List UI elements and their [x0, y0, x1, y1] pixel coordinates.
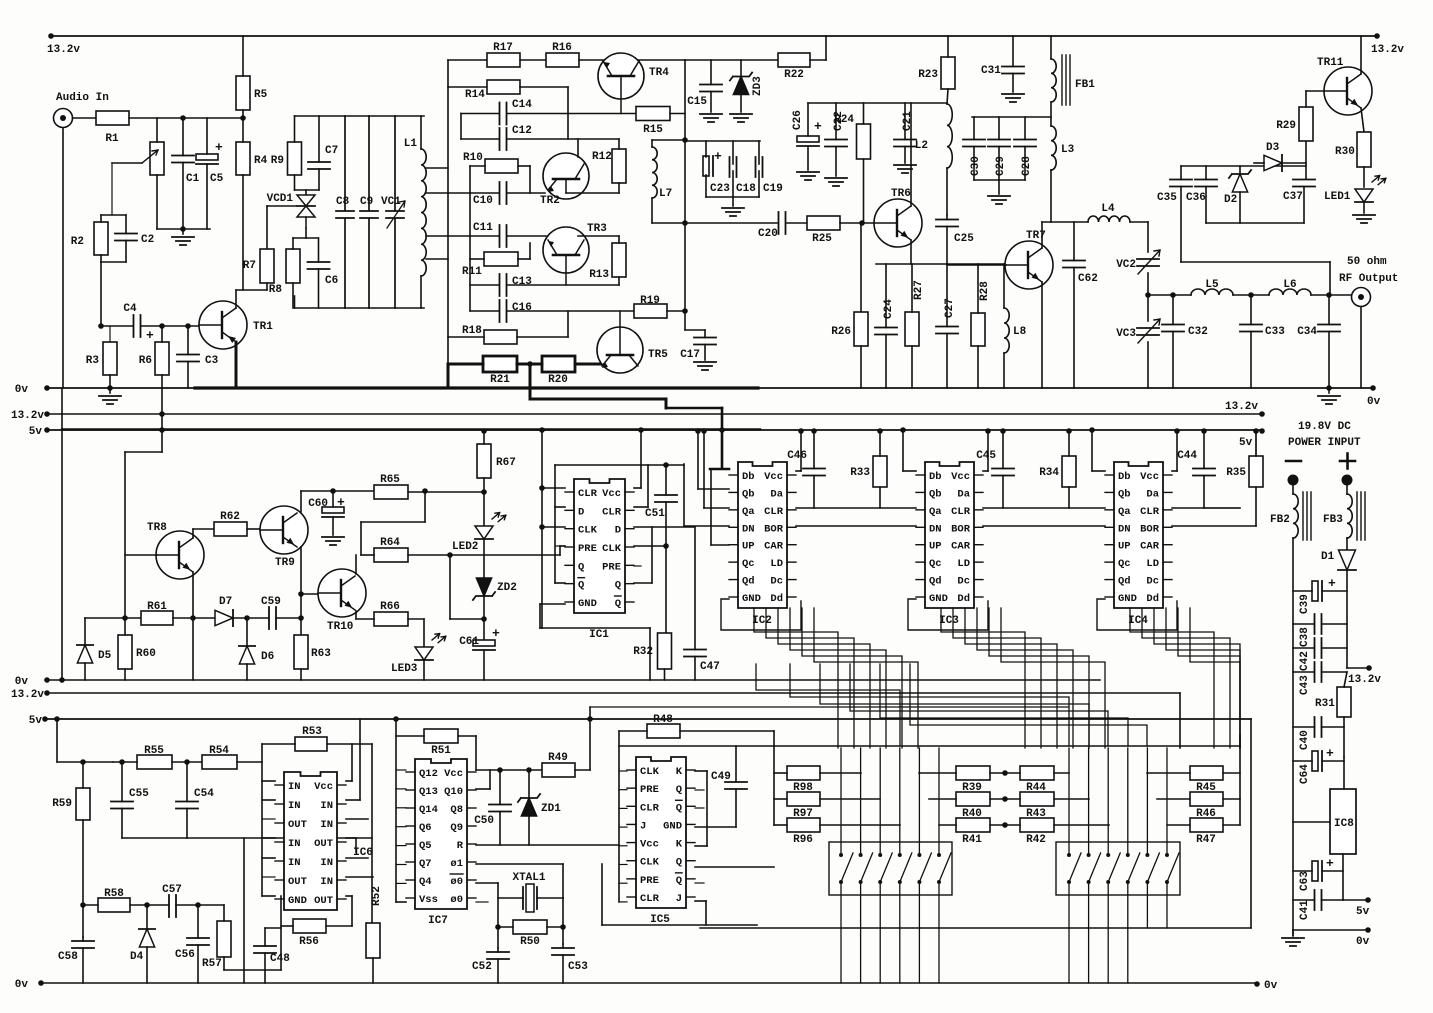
wire — [541, 429, 543, 628]
svg-text:C35: C35 — [1157, 192, 1177, 204]
wire — [547, 926, 563, 928]
svg-text:C49: C49 — [711, 771, 731, 783]
resistor R63 — [294, 635, 331, 669]
wire — [82, 762, 84, 788]
svg-text:C20: C20 — [758, 228, 778, 240]
wire — [562, 955, 564, 983]
svg-text:C50: C50 — [474, 815, 494, 827]
svg-text:Q: Q — [676, 784, 682, 796]
DIP switch SW1 — [829, 842, 952, 895]
resistor R65 — [374, 474, 408, 499]
wire — [555, 464, 684, 466]
svg-text:0v: 0v — [1367, 396, 1381, 408]
inductor L4 — [1088, 203, 1130, 222]
junction — [244, 615, 250, 621]
resistor R19 — [634, 295, 667, 318]
wire — [262, 818, 275, 820]
capacitor C30 — [963, 140, 985, 177]
wire — [124, 452, 126, 618]
wire — [983, 507, 1105, 509]
resistor R66 — [374, 601, 408, 626]
wire — [223, 905, 225, 921]
svg-text:Dd: Dd — [770, 593, 783, 605]
inductor L2 — [915, 104, 952, 168]
wire — [109, 326, 111, 342]
svg-text:R28: R28 — [979, 281, 991, 301]
wire — [1293, 671, 1315, 673]
wire — [476, 769, 542, 771]
svg-text:IC1: IC1 — [589, 629, 609, 641]
svg-text:J: J — [676, 893, 682, 905]
varactor VCD1 — [297, 195, 315, 228]
wire — [619, 789, 627, 791]
svg-text:Q: Q — [676, 875, 682, 887]
ground — [730, 114, 752, 122]
capacitor C21 — [894, 111, 916, 147]
capacitor C29 — [988, 140, 1010, 177]
diode D7 — [215, 610, 233, 626]
svg-text:C9: C9 — [360, 196, 373, 208]
svg-text:C47: C47 — [700, 661, 720, 673]
svg-text:R47: R47 — [1196, 834, 1216, 846]
inductor L8 — [1004, 308, 1027, 353]
IC IC2 — [729, 462, 796, 627]
svg-text:Q: Q — [676, 802, 682, 814]
resistor R53 — [295, 726, 327, 751]
svg-text:L1: L1 — [404, 138, 418, 150]
wire — [694, 657, 696, 681]
wire — [740, 95, 742, 112]
wire — [542, 526, 565, 528]
capacitor C50 — [474, 805, 511, 828]
wire — [355, 555, 357, 574]
svg-text:R61: R61 — [147, 601, 167, 613]
junction — [144, 902, 150, 908]
svg-text:PRE: PRE — [640, 784, 659, 796]
svg-text:Da: Da — [1146, 488, 1159, 500]
wire — [129, 117, 243, 119]
wire — [860, 346, 862, 388]
junction — [80, 759, 86, 765]
svg-text:Qd: Qd — [742, 576, 755, 588]
wire — [685, 329, 705, 331]
wire — [670, 113, 685, 115]
svg-text:L3: L3 — [1061, 144, 1075, 156]
wire — [507, 113, 568, 115]
svg-text:Q12: Q12 — [419, 768, 438, 780]
wire — [710, 60, 712, 85]
wire — [124, 669, 126, 680]
wire — [904, 147, 906, 164]
wire — [618, 731, 620, 902]
svg-text:C64: C64 — [1299, 764, 1311, 784]
svg-text:Q: Q — [578, 561, 584, 573]
wire — [1293, 760, 1312, 762]
wire — [990, 772, 1020, 774]
wire — [1205, 187, 1207, 224]
svg-text:R17: R17 — [493, 42, 513, 54]
svg-text:C12: C12 — [512, 125, 532, 137]
svg-text:CLK: CLK — [602, 543, 622, 555]
wire — [408, 554, 450, 556]
wire — [983, 470, 988, 472]
junction — [1370, 385, 1376, 391]
wire — [51, 35, 1377, 37]
wire — [122, 837, 372, 839]
wire — [879, 487, 881, 508]
svg-text:GND: GND — [578, 598, 597, 610]
svg-text:TR4: TR4 — [649, 67, 669, 79]
wire — [517, 363, 542, 366]
wire — [652, 222, 777, 224]
junction — [1002, 796, 1008, 802]
svg-text:C62: C62 — [1078, 273, 1098, 285]
wire — [1223, 798, 1240, 800]
transistor TR3 — [543, 227, 589, 285]
wire — [498, 926, 513, 928]
wire — [618, 277, 620, 285]
capacitor C4 — [123, 303, 140, 337]
svg-text:LED2: LED2 — [452, 541, 478, 553]
wire — [1282, 162, 1306, 164]
wire — [292, 238, 294, 249]
wire — [562, 898, 564, 944]
svg-text:C41: C41 — [1299, 900, 1311, 920]
wire — [461, 113, 499, 115]
junction — [663, 462, 669, 468]
wire — [346, 780, 352, 782]
variable capacitor VC2 — [1116, 250, 1160, 274]
svg-text:R67: R67 — [496, 457, 516, 469]
svg-text:L8: L8 — [1013, 326, 1027, 338]
svg-text:DN: DN — [929, 523, 942, 535]
svg-text:Db: Db — [1118, 471, 1131, 483]
wire — [1205, 166, 1207, 180]
svg-text:C51: C51 — [645, 508, 665, 520]
inductor L1 — [404, 138, 426, 276]
svg-text:IN: IN — [288, 781, 301, 793]
resistor R17 — [487, 42, 520, 67]
svg-text:VC2: VC2 — [1116, 259, 1136, 271]
wire — [528, 770, 530, 798]
svg-text:D5: D5 — [98, 650, 112, 662]
resistor R52 — [366, 886, 383, 958]
IC IC7 — [406, 759, 476, 927]
wire — [634, 582, 652, 584]
wire — [562, 944, 564, 948]
svg-text:C8: C8 — [336, 196, 350, 208]
wire — [130, 904, 169, 906]
wire — [694, 527, 696, 650]
svg-text:CLK: CLK — [640, 766, 660, 778]
wire — [1306, 90, 1325, 92]
wire — [1172, 332, 1174, 389]
wire — [1255, 487, 1257, 526]
wire — [695, 826, 736, 828]
wire — [346, 799, 360, 801]
wire — [206, 118, 208, 154]
junction — [526, 767, 532, 773]
wire — [424, 491, 426, 522]
capacitor C53 — [552, 948, 588, 973]
svg-text:TR6: TR6 — [891, 188, 911, 200]
IC IC8 — [1330, 789, 1356, 854]
wire — [448, 363, 483, 366]
wire — [567, 87, 569, 139]
junction — [1248, 292, 1254, 298]
resistor R48 — [647, 714, 680, 738]
wire — [356, 618, 374, 620]
svg-text:5v: 5v — [29, 715, 43, 727]
svg-text:R5: R5 — [254, 89, 268, 101]
capacitor C44 — [1177, 450, 1215, 476]
svg-text:GND: GND — [929, 593, 948, 605]
svg-text:L7: L7 — [659, 188, 672, 200]
wire — [1363, 202, 1365, 213]
svg-text:Qb: Qb — [929, 488, 942, 500]
ground — [1353, 215, 1375, 223]
wire — [1346, 570, 1348, 668]
wire — [469, 166, 471, 311]
svg-text:0v: 0v — [1356, 936, 1370, 948]
IC IC6 — [275, 772, 373, 910]
wire — [83, 904, 98, 906]
wire — [1239, 166, 1241, 174]
svg-text:C45: C45 — [976, 450, 996, 462]
wire — [1091, 430, 1093, 471]
inductor FB3 — [1323, 494, 1352, 538]
svg-text:R27: R27 — [913, 280, 925, 300]
wire — [946, 264, 948, 327]
junction — [1170, 292, 1176, 298]
capacitor C41 — [1299, 890, 1322, 920]
wire — [758, 141, 760, 164]
wire — [1172, 470, 1177, 472]
wire — [355, 838, 357, 852]
svg-text:TR2: TR2 — [540, 195, 560, 207]
junction — [298, 591, 304, 597]
wire — [483, 596, 485, 643]
resistor R35 — [1226, 456, 1263, 487]
junction — [1254, 981, 1260, 987]
wire — [518, 165, 530, 167]
wire — [575, 363, 600, 366]
wire — [61, 388, 63, 680]
svg-text:CLR: CLR — [764, 506, 784, 518]
wire — [62, 128, 64, 388]
svg-text:TR7: TR7 — [1026, 230, 1046, 242]
ground — [700, 114, 722, 122]
svg-text:L2: L2 — [915, 140, 928, 152]
svg-text:Da: Da — [957, 488, 970, 500]
wire — [911, 264, 913, 312]
svg-text:13.2v: 13.2v — [1348, 674, 1381, 686]
wire — [476, 901, 488, 903]
wire — [1041, 222, 1043, 248]
wire — [266, 206, 268, 249]
svg-text:GND: GND — [742, 593, 761, 605]
svg-text:Q7: Q7 — [419, 858, 432, 870]
wire — [619, 807, 627, 809]
wire — [619, 901, 627, 903]
wire — [360, 522, 362, 555]
diode D1 — [1338, 550, 1356, 570]
wire — [685, 140, 760, 142]
svg-text:R96: R96 — [793, 834, 813, 846]
capacitor C27 — [936, 298, 958, 333]
resistor R28 — [971, 281, 991, 346]
wire — [946, 227, 948, 265]
wire — [507, 310, 634, 312]
svg-text:IN: IN — [288, 838, 301, 850]
wire — [910, 240, 912, 264]
wire — [651, 198, 653, 223]
transistor TR9 — [260, 506, 308, 569]
wire — [520, 59, 546, 61]
wire — [634, 565, 641, 567]
wire — [281, 925, 293, 927]
capacitor C9 — [360, 116, 378, 308]
svg-text:13.2v: 13.2v — [11, 410, 44, 422]
wire — [101, 214, 126, 216]
wire — [294, 175, 296, 190]
wire — [711, 544, 729, 546]
wire — [233, 617, 269, 619]
capacitor C34 — [1297, 325, 1340, 339]
capacitor C31 — [981, 65, 1024, 77]
resistor R56 — [293, 919, 326, 948]
wire — [156, 118, 158, 142]
diode ZD3 — [730, 73, 752, 95]
wire — [476, 844, 619, 846]
terminal minus — [1286, 460, 1301, 463]
wire — [1293, 647, 1315, 649]
ground — [99, 396, 121, 404]
svg-text:TR3: TR3 — [587, 223, 607, 235]
LED LED1 — [1355, 189, 1373, 202]
wire — [327, 743, 372, 745]
svg-text:Db: Db — [742, 471, 755, 483]
wire — [1041, 282, 1043, 388]
svg-text:D7: D7 — [219, 596, 232, 608]
svg-text:C39: C39 — [1299, 594, 1311, 614]
wire — [529, 243, 531, 259]
svg-text:R41: R41 — [962, 834, 982, 846]
svg-text:ø1: ø1 — [450, 858, 463, 870]
wire — [1157, 798, 1190, 800]
svg-text:CLR: CLR — [578, 488, 598, 500]
wire — [619, 730, 647, 732]
svg-text:PRE: PRE — [578, 543, 597, 555]
wire — [684, 525, 729, 527]
svg-text:0v: 0v — [15, 979, 29, 991]
svg-text:Qc: Qc — [1118, 558, 1131, 570]
svg-text:Dd: Dd — [957, 593, 970, 605]
svg-text:D: D — [615, 525, 621, 537]
wire — [420, 276, 422, 308]
wire — [540, 627, 650, 629]
wire — [863, 159, 865, 223]
svg-text:C52: C52 — [472, 961, 492, 973]
wire mesh cross runs — [756, 664, 900, 746]
svg-text:LD: LD — [957, 558, 970, 570]
wire — [141, 325, 199, 327]
svg-text:R35: R35 — [1226, 467, 1246, 479]
wire — [396, 735, 424, 737]
svg-text:OUT: OUT — [288, 876, 307, 888]
wire — [820, 824, 900, 826]
wire — [640, 465, 642, 488]
svg-text:Vcc: Vcc — [444, 768, 463, 780]
svg-text:VC3: VC3 — [1116, 328, 1136, 340]
wire — [292, 283, 294, 308]
capacitor C10 — [500, 182, 507, 204]
wire — [100, 262, 102, 326]
wire — [261, 744, 263, 896]
wire — [146, 947, 148, 983]
wire — [1172, 507, 1240, 509]
svg-text:J: J — [640, 820, 646, 832]
wire — [497, 959, 499, 983]
wire — [1012, 36, 1014, 67]
wire — [264, 928, 266, 946]
wire — [773, 731, 775, 825]
wire — [499, 770, 501, 805]
terminal — [1342, 475, 1353, 486]
svg-text:Db: Db — [929, 471, 942, 483]
wire — [973, 117, 975, 140]
wire — [698, 488, 729, 490]
junction — [44, 690, 50, 696]
svg-text:13.2v: 13.2v — [1371, 44, 1404, 56]
svg-text:IN: IN — [288, 857, 301, 869]
junction — [539, 427, 545, 433]
capacitor C11 — [473, 222, 507, 247]
resistor R59 — [52, 788, 90, 820]
capacitor C55 — [111, 788, 149, 809]
wire — [351, 744, 353, 781]
inductor FB1 — [1051, 59, 1095, 102]
svg-text:Qb: Qb — [742, 488, 755, 500]
wire — [1346, 538, 1348, 554]
resistor R18 — [462, 325, 517, 344]
wire — [589, 707, 591, 770]
wire — [1250, 719, 1252, 928]
capacitor C32 — [1162, 325, 1208, 339]
svg-text:C29: C29 — [995, 156, 1007, 176]
wire — [396, 826, 406, 828]
svg-text:+: + — [1328, 576, 1336, 591]
svg-text:C2: C2 — [141, 234, 154, 246]
wire — [507, 192, 545, 194]
wire — [1322, 899, 1344, 901]
wire — [408, 491, 484, 493]
resistor R4 — [236, 142, 268, 175]
wire — [810, 59, 826, 61]
wire — [1322, 623, 1348, 625]
wire — [652, 139, 685, 141]
wire — [361, 521, 425, 523]
svg-text:R2: R2 — [71, 236, 84, 248]
wire — [972, 116, 1051, 118]
svg-text:R50: R50 — [520, 936, 540, 948]
svg-text:Vcc: Vcc — [314, 781, 333, 793]
wire — [1303, 187, 1305, 224]
transistor TR6 — [874, 188, 922, 247]
wire — [121, 762, 123, 802]
capacitor C12 — [500, 125, 532, 150]
wire — [237, 761, 262, 763]
